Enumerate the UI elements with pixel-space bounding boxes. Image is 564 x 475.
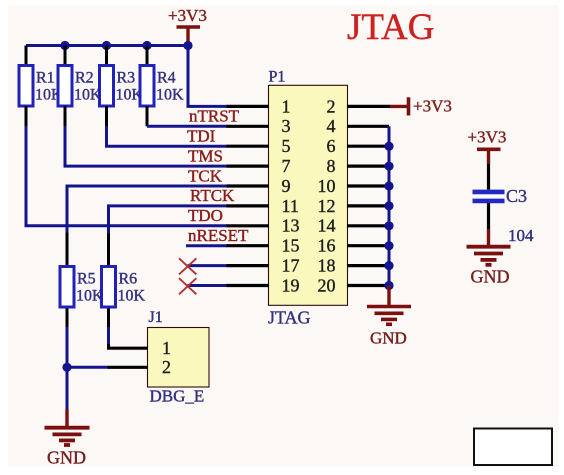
pin R3 top xyxy=(105,46,108,67)
svg-text:10K: 10K xyxy=(74,87,102,104)
svg-text:RTCK: RTCK xyxy=(190,186,235,205)
svg-text:R4: R4 xyxy=(157,70,176,87)
svg-text:3: 3 xyxy=(282,116,291,136)
svg-text:2: 2 xyxy=(162,357,171,377)
svg-text:DBG_E: DBG_E xyxy=(150,387,205,406)
wire R5 bottom to GND and J1 pin2 xyxy=(66,307,69,327)
pin stubs P1 right xyxy=(347,106,390,285)
svg-text:C3: C3 xyxy=(506,186,527,206)
pin 3 stub xyxy=(227,125,270,128)
svg-text:R2: R2 xyxy=(75,70,94,87)
wire TCK (pin 9 to R5) xyxy=(67,186,227,233)
svg-text:20: 20 xyxy=(318,275,336,295)
pin 2 stub xyxy=(347,105,390,108)
svg-text:2: 2 xyxy=(327,96,336,116)
pin 20 stub xyxy=(347,284,389,287)
pin 18 stub xyxy=(347,264,389,267)
svg-text:P1: P1 xyxy=(269,69,286,86)
svg-text:+3V3: +3V3 xyxy=(413,97,452,116)
svg-text:8: 8 xyxy=(327,156,336,176)
capacitor C3 plates xyxy=(473,192,505,201)
wire C3 to GND xyxy=(487,203,490,230)
pin J1-1 stub xyxy=(107,347,148,350)
junction dots on ground bus xyxy=(384,142,393,291)
wire top rail xyxy=(26,44,188,47)
svg-text:10K: 10K xyxy=(118,288,146,305)
pin 1 stub xyxy=(227,105,270,108)
svg-text:6: 6 xyxy=(327,136,336,156)
svg-text:TCK: TCK xyxy=(188,167,223,186)
pin stubs P1 left xyxy=(227,106,270,285)
pin 17 stub xyxy=(227,264,270,267)
pin R4 top xyxy=(146,46,149,67)
pin R4 bottom xyxy=(146,106,149,126)
resistor R5 xyxy=(66,233,69,267)
svg-text:18: 18 xyxy=(318,256,336,276)
svg-text:TDI: TDI xyxy=(187,127,216,146)
wire nRESET (pin 15) xyxy=(186,244,227,247)
junction dot rail R4 xyxy=(142,41,151,50)
svg-text:12: 12 xyxy=(318,196,336,216)
no-ERC X mark pin 19 xyxy=(179,278,196,294)
svg-text:GND: GND xyxy=(47,448,86,468)
wire pin 19 xyxy=(188,284,228,287)
power +3V3 cap branch bar xyxy=(477,148,501,152)
wire ground bus vertical xyxy=(388,126,391,286)
ground bus GND symbol stem xyxy=(387,286,390,306)
junction dot rail power xyxy=(183,41,192,50)
pin 8 stub xyxy=(347,165,389,168)
resistor R4 xyxy=(140,66,154,107)
svg-text:10K: 10K xyxy=(76,288,104,305)
pin R2 bottom xyxy=(64,106,67,126)
pin 12 stub xyxy=(347,204,389,207)
wire R6 bottom to J1 pin 1 xyxy=(107,307,110,327)
ground left GND stem xyxy=(65,409,68,427)
pin 6 stub xyxy=(347,145,389,148)
svg-text:13: 13 xyxy=(282,216,300,236)
svg-text:+3V3: +3V3 xyxy=(168,6,207,25)
pin 7 stub xyxy=(227,165,270,168)
svg-text:R5: R5 xyxy=(77,271,96,288)
connector J1 body xyxy=(148,328,210,388)
resistor R6 xyxy=(107,234,110,267)
svg-text:10: 10 xyxy=(318,176,336,196)
power +3V3 cap branch stem xyxy=(487,149,490,163)
pin J1-2 stub xyxy=(108,366,149,369)
wire +3V3 to C3 xyxy=(487,164,490,190)
wire nTRST (R4 to pin 3) xyxy=(147,125,227,128)
svg-text:R3: R3 xyxy=(117,70,136,87)
pin R1 top xyxy=(25,46,28,67)
svg-text:16: 16 xyxy=(318,236,336,256)
power +3V3 right of pin2: stem xyxy=(390,105,408,108)
pin 15 stub xyxy=(227,244,270,247)
pin 14 stub xyxy=(347,224,389,227)
no-ERC X mark pin 17 xyxy=(179,258,196,274)
power +3V3 top bar xyxy=(177,25,201,29)
wire TDO (R1 to pin 13) xyxy=(26,126,227,226)
svg-text:GND: GND xyxy=(471,267,510,287)
connector P1 body xyxy=(269,85,348,305)
svg-text:1: 1 xyxy=(162,338,171,358)
ground C3 GND stem xyxy=(487,230,490,245)
svg-text:J1: J1 xyxy=(149,309,163,326)
svg-text:19: 19 xyxy=(282,275,300,295)
resistor R2 xyxy=(58,66,72,107)
wire pin1 from power rail xyxy=(188,46,227,107)
wire RTCK (pin 11 to R6) xyxy=(109,206,228,234)
white box bottom right xyxy=(474,429,552,466)
ground bus GND bars xyxy=(367,307,411,325)
svg-text:JTAG: JTAG xyxy=(268,308,311,328)
svg-text:17: 17 xyxy=(282,256,300,276)
wire junction to J1 pin 2 xyxy=(67,366,108,369)
wire pin 17 xyxy=(188,264,228,267)
ground left GND bars xyxy=(45,428,90,445)
svg-text:nTRST: nTRST xyxy=(189,107,240,126)
junction dot rail R2 xyxy=(60,41,69,50)
pin numbers right column xyxy=(318,96,336,295)
svg-text:1: 1 xyxy=(282,96,291,116)
resistor R1 xyxy=(19,66,33,107)
junction dot R5/J1 xyxy=(62,363,71,372)
svg-text:+3V3: +3V3 xyxy=(468,128,507,147)
svg-text:R6: R6 xyxy=(119,271,138,288)
svg-text:4: 4 xyxy=(327,116,336,136)
pin 5 stub xyxy=(227,145,270,148)
svg-text:11: 11 xyxy=(282,196,299,216)
ground C3 GND bars xyxy=(467,247,511,265)
pin 10 stub xyxy=(347,184,389,187)
svg-text:10K: 10K xyxy=(156,87,184,104)
wire TMS (R2 to pin 7) xyxy=(65,126,227,166)
svg-text:14: 14 xyxy=(318,216,336,236)
svg-text:TMS: TMS xyxy=(188,147,223,166)
pin 16 stub xyxy=(347,244,389,247)
svg-text:R1: R1 xyxy=(36,70,55,87)
pin 9 stub xyxy=(227,184,270,187)
svg-text:GND: GND xyxy=(370,329,407,348)
svg-text:TDO: TDO xyxy=(188,206,223,225)
pin R3 bottom xyxy=(105,106,108,126)
svg-text:JTAG: JTAG xyxy=(347,7,434,48)
svg-text:5: 5 xyxy=(282,136,291,156)
svg-text:15: 15 xyxy=(282,236,300,256)
svg-text:104: 104 xyxy=(508,226,534,245)
wire TDI (R3 to pin 5) xyxy=(107,126,228,146)
pin 11 stub xyxy=(227,204,270,207)
pin R2 top xyxy=(64,46,67,67)
pin R1 bottom xyxy=(25,106,28,126)
svg-text:9: 9 xyxy=(282,176,291,196)
pin 19 stub xyxy=(227,284,270,287)
resistor R3 xyxy=(100,66,114,107)
svg-text:nRESET: nRESET xyxy=(188,226,249,245)
pin 13 stub xyxy=(227,224,270,227)
svg-text:7: 7 xyxy=(282,156,291,176)
power +3V3 right bar xyxy=(407,97,411,115)
pin numbers left column xyxy=(282,96,300,295)
junction dot rail R3 xyxy=(102,41,111,50)
power +3V3 top stem xyxy=(186,27,189,46)
pin 4 stub xyxy=(347,125,389,128)
